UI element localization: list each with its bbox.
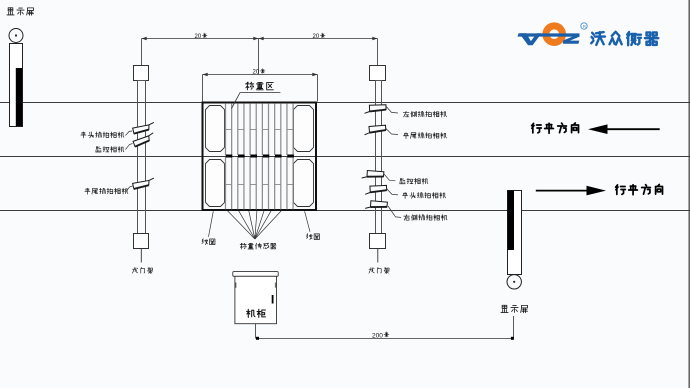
grating vertical bars top row (226, 103, 294, 155)
right edge border (688, 0, 690, 388)
platform octagon bottom-right (294, 160, 314, 207)
cabinet body (235, 276, 277, 323)
direction arrow bottom lane (right) (536, 190, 598, 192)
label zuoce-zhuapai-camera right (403, 111, 446, 117)
platform octagon top-right (294, 106, 314, 152)
left display pole circle (9, 29, 23, 43)
left gantry upper box (134, 66, 149, 81)
leader line left label2 (126, 144, 133, 150)
weighing area outer box (203, 103, 317, 211)
label chengzhong-chuanganqi (240, 243, 276, 249)
lane divider dashes inside box (226, 155, 294, 158)
label xianshiping top-left (7, 8, 34, 16)
label chetou-zhuapai-camera right (403, 192, 446, 198)
left gantry post (138, 81, 146, 234)
platform octagon bottom-left (206, 160, 225, 207)
road line bottom (0, 210, 690, 212)
label chewei-zhuapai-camera right (403, 133, 446, 139)
camera right c3 (monitor) (362, 168, 385, 182)
label jigui (247, 309, 266, 317)
label xianshiping bottom-right (501, 305, 528, 313)
camera right c5 (right-side capture) (365, 198, 388, 212)
camera right c2 (rear capture) (365, 125, 386, 135)
svg-text:20: 20 (313, 34, 320, 40)
right gantry lower box (370, 234, 386, 249)
leader line left label1 (126, 131, 133, 136)
dim leg center (258, 39, 260, 75)
label xingche-fangxiang bottom (616, 184, 663, 194)
cabinet hinge marks (235, 283, 237, 288)
logo text wo-zhong-heng-qi (591, 32, 658, 45)
label jiankong-camera left (96, 146, 124, 152)
left display pole black panel (16, 68, 22, 126)
leader line right label4 (387, 189, 399, 195)
label longmenjia right (369, 267, 389, 273)
label longmenjia left (132, 267, 152, 273)
right gantry post (376, 81, 382, 234)
road line top (0, 102, 690, 104)
VOZ logo registered mark (581, 23, 587, 29)
right gantry upper box (370, 66, 386, 81)
VOZ logo orange ring (546, 26, 563, 43)
label xianquan right (306, 234, 319, 240)
grating mid ticks bottom row (226, 184, 294, 186)
direction arrow top lane (left) (596, 128, 660, 130)
camera right c1 (left-side capture) (365, 103, 387, 114)
grating mid ticks top row (226, 129, 294, 131)
label xingche-fangxiang top (532, 123, 579, 133)
cabinet handle (272, 295, 274, 304)
leader line left label3 (126, 186, 133, 192)
leader line right label1 (386, 106, 398, 113)
leader line right label2 (386, 129, 398, 135)
right display pole circle (507, 275, 521, 289)
sensor fan lines (228, 211, 282, 239)
dim leg right gantry (377, 39, 379, 66)
label chengzhongqu (246, 82, 274, 90)
grating vertical bars bottom row (226, 157, 294, 209)
leader line right label3 (384, 174, 396, 181)
svg-text:20: 20 (195, 34, 202, 40)
dim leg left gantry (141, 39, 143, 66)
label jiankong-camera right (400, 178, 428, 184)
camera left c3 (rear capture) (132, 178, 154, 189)
dimension line weighing area 20m (203, 74, 318, 76)
road line middle (0, 156, 690, 158)
right display pole black panel (508, 191, 514, 251)
left display pole mast (10, 44, 23, 127)
label chetou-zhuapai-camera left (81, 132, 124, 138)
left gantry lower box (134, 234, 149, 249)
right display pole mast (508, 191, 522, 275)
leader line right label5 (388, 206, 401, 217)
label youce-zhuapai-camera right (404, 215, 447, 221)
svg-text:20: 20 (253, 70, 260, 76)
bottom dimension 200m: cabinet leg (255, 324, 257, 339)
camera right c4 (front capture) (365, 184, 387, 195)
cabinet lid (233, 272, 278, 277)
camera left c1 (front capture) (132, 122, 154, 133)
dim leg weigh right (317, 75, 319, 102)
VOZ logo horizontal bar (518, 33, 580, 36)
svg-text:200: 200 (372, 332, 383, 339)
VOZ logo Z (563, 33, 580, 43)
dim leg weigh left (202, 75, 204, 102)
leader below right display label (513, 316, 515, 339)
label chewei-zhuapai-camera left (85, 188, 128, 194)
platform octagon top-left (206, 106, 225, 152)
leader chengzhongqu (232, 93, 281, 109)
leader xianquan right (305, 211, 310, 232)
leader xianquan left (209, 211, 214, 237)
camera left c2 (monitor) (132, 133, 155, 147)
bottom dimension line (257, 338, 514, 340)
label xianquan left (202, 239, 215, 245)
VOZ logo V (519, 33, 541, 45)
dimension line top (two 20m spans) (142, 38, 378, 40)
